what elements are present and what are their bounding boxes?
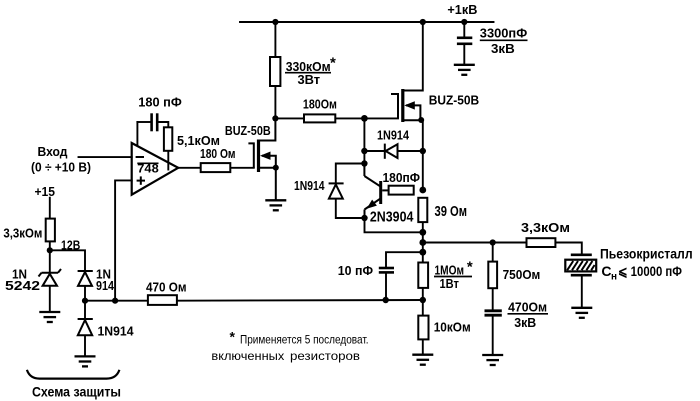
brace protection circuit bbox=[27, 370, 120, 379]
svg-text:1N914: 1N914 bbox=[377, 128, 410, 143]
wire upper-right vertical: rail to Q3 drain bbox=[422, 22, 424, 91]
wire left column gate node down to diode row bbox=[363, 118, 365, 151]
wire 4700 cap to ground bbox=[492, 316, 494, 356]
wire op-amp inverting input bbox=[79, 156, 132, 158]
capacitor C4 4700m 3kV bbox=[485, 311, 502, 315]
junction 1M/10k bbox=[420, 297, 426, 303]
junction 12V node bbox=[47, 247, 53, 253]
wire 180 Ohm upper resistor to gate-column node bbox=[335, 117, 364, 119]
zener VD1 1N5242 (cathode up) bbox=[39, 269, 62, 286]
wire gate lead of Q3 bbox=[364, 117, 398, 119]
wire emitter node down and right along bottom row bbox=[365, 218, 424, 232]
ground 4700 cap bbox=[482, 355, 503, 365]
svg-text:180Ом: 180Ом bbox=[303, 96, 337, 111]
svg-text:3Вт: 3Вт bbox=[298, 72, 321, 87]
diode D4 1N914 protection lower (cathode up) bbox=[78, 319, 93, 335]
resistor R4 180 Om output horizontal bbox=[201, 163, 231, 172]
svg-text:н: н bbox=[611, 272, 617, 283]
svg-text:1N914: 1N914 bbox=[98, 324, 135, 339]
svg-text:*: * bbox=[467, 259, 473, 276]
ground zener bbox=[39, 312, 60, 322]
junction Q2 source bbox=[273, 165, 279, 171]
svg-text:*: * bbox=[330, 55, 336, 72]
svg-text:470 Ом: 470 Ом bbox=[146, 280, 187, 295]
ground piezo bbox=[571, 308, 592, 318]
svg-text:180 Ом: 180 Ом bbox=[200, 146, 236, 161]
wire node down to D2 bbox=[84, 301, 86, 319]
svg-text:BUZ-50B: BUZ-50B bbox=[225, 123, 271, 138]
wire 330k resistor bottom to gate node bbox=[274, 86, 276, 118]
svg-text:5242: 5242 bbox=[5, 279, 40, 293]
transistor Q1 2N3904 bbox=[364, 164, 388, 219]
MOSFET Q3 BUZ-50B upper bbox=[391, 89, 423, 122]
wire right column Q3 source down to diode row bbox=[422, 120, 424, 151]
wire right column bottom nodes bbox=[422, 232, 424, 262]
wire diode row right stub bbox=[398, 150, 423, 152]
op-amp U1 748 bbox=[132, 143, 179, 195]
svg-text:⩽ 10000 пФ: ⩽ 10000 пФ bbox=[618, 263, 682, 279]
svg-text:3кВ: 3кВ bbox=[491, 41, 515, 56]
wire 3300pF cap to ground bbox=[463, 44, 465, 64]
wire branch to left vertical diode (top) bbox=[336, 164, 365, 184]
svg-text:С: С bbox=[601, 263, 611, 279]
svg-text:Вход: Вход bbox=[38, 144, 69, 159]
svg-text:3,3кОм: 3,3кОм bbox=[3, 227, 42, 241]
wire feedback cap left drop to op-amp bbox=[136, 122, 138, 145]
junction 10pF branch bbox=[419, 249, 426, 256]
wire long horizontal low wire bbox=[85, 300, 148, 302]
junction rail/330k bbox=[272, 19, 278, 25]
wire 3.3k resistor to piezo bbox=[555, 243, 581, 255]
wire 1M resistor to node bbox=[422, 288, 424, 300]
svg-text:+15: +15 bbox=[35, 184, 56, 199]
junction 10pF bottom bbox=[383, 297, 389, 303]
wire 10pF branch bbox=[386, 252, 423, 267]
svg-text:1МОм: 1МОм bbox=[435, 263, 465, 278]
svg-text:Схема защиты: Схема защиты bbox=[32, 385, 121, 400]
wire piezo bottom to ground bbox=[581, 276, 583, 308]
wire 12V node right and down to D1 bbox=[50, 250, 85, 270]
capacitor C2 3300pF 3kV bbox=[457, 38, 472, 44]
wire top +1kV rail bbox=[240, 21, 494, 23]
junction noninverting input bbox=[112, 298, 118, 304]
wire 39 Ohm bottom lead bbox=[422, 222, 424, 232]
wire feedback cap leads bbox=[137, 121, 150, 123]
wire op-amp output to 180 Ohm bbox=[177, 167, 200, 169]
svg-text:3кВ: 3кВ bbox=[514, 315, 536, 330]
svg-text:3300пФ: 3300пФ bbox=[480, 26, 527, 41]
svg-text:Применяется 5 последоват.: Применяется 5 последоват. bbox=[240, 333, 369, 347]
wire node to 180 Ohm upper resistor bbox=[275, 117, 304, 119]
resistor R9 1MOm 1Vt vertical bbox=[418, 263, 428, 288]
svg-text:10 пФ: 10 пФ bbox=[338, 263, 373, 278]
wire 750 Ohm branch down from node bbox=[492, 243, 494, 262]
MOSFET Q2 BUZ-50B lower bbox=[248, 118, 275, 199]
junction D1 right bbox=[420, 148, 426, 154]
svg-text:180 пФ: 180 пФ bbox=[138, 95, 182, 110]
svg-text:750Ом: 750Ом bbox=[503, 267, 541, 282]
svg-text:39 Ом: 39 Ом bbox=[435, 204, 468, 220]
junction D1 left bbox=[361, 148, 367, 154]
capacitor C1 180pF feedback (vertical plates) bbox=[152, 113, 158, 131]
wire 5.1k resistor bottom drop to output bbox=[167, 151, 169, 170]
resistor R10 10kOm vertical bbox=[418, 316, 428, 340]
junction 750Om branch bbox=[490, 239, 496, 245]
junction collector/D2 branch bbox=[361, 160, 367, 166]
resistor R1 330kOm 3Vt vertical bbox=[270, 57, 280, 86]
junction gate node bbox=[361, 115, 368, 122]
wire node to 10k resistor bbox=[422, 300, 424, 316]
svg-text:470Ом: 470Ом bbox=[508, 300, 547, 315]
ground op-amp MOSFET source bbox=[265, 200, 286, 210]
capacitor C3 10pF bbox=[379, 268, 394, 272]
wire +15 lead bbox=[49, 198, 51, 219]
diode D3 1N914 protection upper (cathode up) bbox=[78, 271, 93, 286]
wire 330k branch from rail down to resistor bbox=[274, 22, 276, 57]
svg-text:Пьезокристалл: Пьезокристалл bbox=[600, 246, 693, 262]
wire long horizontal low wire right part bbox=[177, 299, 423, 302]
diode D2 1N914 left vertical (cathode up) bbox=[329, 183, 344, 198]
junction rail/Q3 drain bbox=[420, 19, 426, 25]
wire 750 Ohm to 4700 cap bbox=[492, 288, 494, 310]
resistor R6 470 Om horizontal bbox=[148, 295, 177, 305]
resistor R2 180 Om upper horizontal bbox=[304, 114, 335, 122]
ground D4 bbox=[75, 356, 96, 366]
svg-text:914: 914 bbox=[96, 279, 114, 293]
svg-text:10кОм: 10кОм bbox=[434, 320, 471, 335]
diode D1 1N914 horizontal (points left) bbox=[385, 144, 398, 159]
svg-text:*: * bbox=[230, 329, 236, 345]
svg-text:3,3кОм: 3,3кОм bbox=[521, 220, 570, 235]
svg-text:(0 ÷ +10 В): (0 ÷ +10 В) bbox=[31, 161, 91, 175]
svg-text:748: 748 bbox=[137, 164, 159, 176]
svg-text:12В: 12В bbox=[61, 239, 80, 253]
wire left vertical diode bottom return bbox=[336, 199, 365, 218]
svg-text:BUZ-50B: BUZ-50B bbox=[429, 92, 480, 107]
svg-text:180пФ: 180пФ bbox=[383, 170, 421, 185]
wire op-amp non-inverting input down to low wire bbox=[115, 180, 132, 300]
svg-text:резисторов: резисторов bbox=[290, 349, 360, 363]
wire 3300pF branch from rail down bbox=[463, 22, 465, 38]
wire 12V node down to zener bbox=[49, 250, 51, 272]
resistor R8 39 Om vertical bbox=[418, 198, 427, 222]
junction 330k/180Om/Q2 drain bbox=[272, 115, 278, 121]
wire D1 bottom to node bbox=[84, 285, 86, 301]
resistor R11 750 Om vertical bbox=[488, 262, 497, 289]
junction protection diodes bbox=[82, 298, 88, 304]
wire diode row left stub bbox=[364, 150, 384, 152]
wire zener to ground bbox=[49, 285, 51, 312]
resistor R5 3.3kOm left vertical bbox=[46, 219, 55, 242]
resistor R12 3.3kOm right horizontal bbox=[527, 238, 556, 247]
ground 3300pF bbox=[454, 65, 475, 75]
svg-text:1Вт: 1Вт bbox=[440, 277, 459, 291]
svg-text:1N914: 1N914 bbox=[294, 178, 325, 193]
junction output row right bbox=[419, 239, 426, 246]
resistor R7 180pF box at Q1 base bbox=[389, 186, 414, 195]
wire left column diode row to branch node bbox=[363, 151, 365, 164]
junction emitter/D2 return bbox=[361, 215, 367, 221]
wire 10k resistor to ground bbox=[422, 339, 424, 354]
junction 39Om bottom bbox=[419, 229, 426, 236]
svg-text:+1кВ: +1кВ bbox=[447, 2, 477, 17]
svg-text:2N3904: 2N3904 bbox=[370, 209, 414, 225]
junction 180pF/39Om bbox=[419, 187, 426, 194]
wire output row to 3.3k resistor bbox=[423, 242, 527, 244]
ground 10kOm bbox=[412, 355, 433, 365]
junction rail/3300pF bbox=[461, 19, 467, 25]
wire 180 Ohm to Q2 gate bbox=[230, 167, 254, 169]
junction Q3 source bbox=[418, 117, 424, 123]
wire feedback cap to 5.1k resistor bbox=[158, 122, 169, 127]
wire right column diode row to 180pF node bbox=[422, 151, 424, 190]
piezo crystal BQ1 bbox=[565, 255, 596, 275]
resistor R3 5.1kOm feedback bbox=[164, 127, 172, 151]
wire 10pF cap down to long wire bbox=[385, 273, 387, 300]
wire D2 bottom to ground bbox=[84, 335, 86, 356]
wire 3.3k left resistor to 12V node bbox=[49, 241, 51, 250]
svg-text:включенных: включенных bbox=[211, 349, 285, 363]
